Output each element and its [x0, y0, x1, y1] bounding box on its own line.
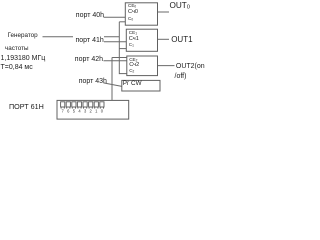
bit cell 1 of port 61h register: [94, 102, 98, 107]
svg-text:1: 1: [95, 109, 98, 114]
wire: port 40h data line: [104, 16, 126, 18]
bit cell 6 of port 61h register: [66, 102, 70, 107]
wire: clock bus vertical: [118, 22, 120, 74]
label: OUT2(on /off): [176, 63, 205, 70]
svg-text:2: 2: [90, 109, 93, 114]
counter 1 internal labels: [129, 31, 137, 36]
svg-text:4: 4: [78, 109, 81, 114]
wire: clock stub into counter 0: [119, 21, 125, 23]
wires and boxes: [0, 0, 205, 134]
svg-text:0: 0: [101, 109, 104, 114]
label: Рг CW: [123, 81, 142, 87]
counter 0 internal labels: [128, 4, 136, 9]
bit numbers 7..0: [62, 109, 104, 114]
label: OUT1: [171, 36, 192, 44]
label: Генератор частоты 1,193180 МГц Т=0,84 мс: [8, 33, 38, 39]
counter 1 box: [126, 29, 157, 51]
svg-text:5: 5: [73, 109, 76, 114]
wire: port 42h data line: [104, 60, 127, 62]
wire: gate line from port 61h register to counter 2: [112, 58, 127, 101]
counter 2 box: [127, 56, 158, 76]
CW register box: [122, 80, 160, 91]
label: порт 41h (white background interrupts clock line): [73, 34, 104, 44]
counter 0 box: [125, 3, 157, 25]
label: ПОРТ 61Н: [9, 103, 44, 110]
wire: OUT0 line: [158, 11, 170, 13]
wire: port 43h diagonal to CW register: [104, 83, 122, 87]
svg-text:3: 3: [84, 109, 87, 114]
counter 2 internal labels: [129, 58, 137, 63]
bit cell 0 of port 61h register: [100, 102, 104, 107]
bit cell 4 of port 61h register: [77, 102, 81, 107]
wire: generator clock line: [43, 36, 120, 38]
svg-text:6: 6: [67, 109, 70, 114]
bit cells of port 61h register: [61, 102, 104, 109]
port 61h bit register box: [57, 100, 129, 119]
label: порт 43h: [79, 78, 107, 85]
wire: clock stub into counter 1: [119, 48, 126, 50]
label: порт 42h: [75, 56, 103, 63]
label: порт 40h: [76, 12, 104, 19]
wire: clock stub into counter 2: [119, 73, 127, 75]
svg-text:7: 7: [62, 109, 65, 114]
wire: port 41h data line: [104, 41, 127, 43]
bit cell 7 of port 61h register: [61, 102, 65, 107]
bit cell 3 of port 61h register: [83, 102, 87, 107]
bit cell 2 of port 61h register: [89, 102, 93, 107]
wire: OUT2 line: [158, 65, 175, 67]
wire: OUT1 line: [158, 38, 170, 40]
bit cell 5 of port 61h register: [72, 102, 76, 107]
label: OUT0: [170, 2, 191, 11]
